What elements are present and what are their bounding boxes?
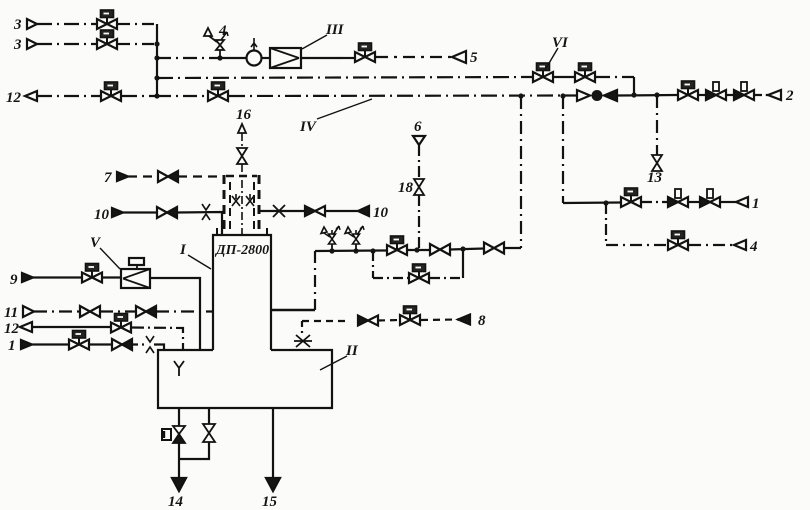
svg-text:2: 2 <box>785 88 794 104</box>
wire <box>642 201 668 203</box>
arrow inlet 10 <box>112 208 123 217</box>
valve plain B <box>484 243 504 254</box>
arrow inlet 7 <box>117 172 128 181</box>
bleeder arrow <box>238 124 246 133</box>
wire line 9 <box>33 276 81 278</box>
wire dashdot to valve 5 <box>343 57 355 59</box>
throat top dashed cap <box>226 175 257 177</box>
valve with actuator on line 8 <box>400 306 420 325</box>
junction dots on header <box>154 41 159 46</box>
X fitting <box>294 335 312 347</box>
valve on line 11 <box>136 306 156 317</box>
leader IV <box>317 99 372 119</box>
wire line 1 <box>32 343 68 345</box>
svg-text:8: 8 <box>478 313 486 329</box>
valve on line 12 top <box>101 82 121 101</box>
junction dot x657 <box>654 92 659 97</box>
wire riser down <box>314 251 316 310</box>
wire <box>450 249 484 250</box>
throat center line <box>241 133 243 235</box>
wire line 12 to header <box>122 95 157 97</box>
arrow outlet 1 <box>736 197 748 207</box>
valve with actuator on bypass <box>409 264 429 283</box>
arrow inlet 3 lower <box>27 39 37 49</box>
svg-text:10: 10 <box>94 207 110 223</box>
blower stem <box>251 38 257 50</box>
wire ejector right <box>301 57 343 59</box>
junction dot <box>217 55 222 60</box>
wire line 3 upper right <box>118 23 157 25</box>
svg-text:12: 12 <box>6 90 22 106</box>
wire to arrow 2 <box>754 94 768 96</box>
wire bypass bottom right <box>430 277 463 279</box>
wire drop 14 <box>178 408 180 426</box>
arrow outlet 8 <box>458 315 470 325</box>
wire drain 2 to line 14 <box>179 442 209 459</box>
valve 18 <box>414 179 424 195</box>
charging device symbols <box>232 194 254 206</box>
wire line 1 right <box>563 201 620 204</box>
valve pair on line 8 <box>358 316 378 326</box>
wire line 4 <box>606 244 667 246</box>
valve on line 5 <box>355 43 375 62</box>
gate valve 1 <box>668 189 688 207</box>
junction dot x606 <box>603 200 608 205</box>
wire header vertical <box>156 24 158 97</box>
drain valve 2 <box>203 424 215 442</box>
wire line 6 lower <box>418 195 420 250</box>
svg-text:1: 1 <box>752 196 760 212</box>
arrow outlet 10 <box>358 206 369 216</box>
wire line 3 lower <box>37 43 96 45</box>
wire drop 15 <box>272 408 274 478</box>
arrow outlet 5 <box>452 51 466 63</box>
wire drop second drain <box>208 408 210 424</box>
wire line VI <box>157 77 532 78</box>
wire vertical x606 <box>605 203 607 245</box>
svg-text:4: 4 <box>218 23 227 39</box>
wire line 3 upper <box>37 23 96 25</box>
drain valve with weight <box>162 426 185 443</box>
wire vertical x657 to valve 13 <box>656 95 658 155</box>
svg-text:11: 11 <box>4 305 18 321</box>
wire <box>726 94 734 96</box>
svg-text:6: 6 <box>414 119 422 135</box>
leader III <box>302 35 327 49</box>
wire line 5 <box>376 56 452 58</box>
junction dot x463 <box>460 246 465 251</box>
svg-text:I: I <box>179 242 187 258</box>
relief valve assembly A <box>321 226 340 251</box>
wire <box>325 210 358 212</box>
ejector III box <box>270 48 301 68</box>
svg-text:18: 18 <box>398 180 414 196</box>
arrow inlet 3 upper <box>27 19 37 29</box>
wire check valve to valves <box>617 94 677 97</box>
valve with actuator on line 12 <box>111 314 131 333</box>
wire main line <box>157 95 207 97</box>
valve VI left <box>533 63 553 82</box>
furnace collar ticks <box>217 228 267 235</box>
wire to blower <box>212 57 247 59</box>
wire bypass up right <box>462 249 464 278</box>
wire vertical x563 <box>562 96 564 203</box>
wire to arrow 4 <box>689 244 734 246</box>
valve pair <box>305 206 325 216</box>
flow chevrons <box>146 336 154 353</box>
arrow outlet 2 <box>768 90 781 100</box>
wire blower to ejector <box>261 57 270 59</box>
wire vertical x521 <box>520 96 522 248</box>
wire <box>132 328 183 351</box>
wire line 10 <box>123 211 158 213</box>
valve on line 3 lower <box>97 30 117 49</box>
valve on line 1 <box>112 339 132 350</box>
wire line 7 right <box>178 175 224 177</box>
arrow outlet 15 <box>266 478 280 491</box>
valve on line 7 <box>158 171 178 182</box>
wire <box>408 249 430 251</box>
leader II <box>320 356 347 370</box>
svg-text:16: 16 <box>236 107 252 123</box>
arrow inlet 6 <box>413 136 425 145</box>
valve VI right <box>575 63 595 82</box>
svg-text:12: 12 <box>4 321 20 337</box>
arrow inlet 11 <box>23 306 34 317</box>
valve plain A <box>430 244 450 255</box>
wire line 12 top <box>37 95 100 97</box>
valve with actuator on line 4 <box>668 231 688 250</box>
check valve <box>577 90 617 101</box>
arrow outlet 4 <box>734 240 746 250</box>
arrow outlet 14 <box>172 478 186 491</box>
wire from throat <box>259 210 305 212</box>
arrow inlet 9 <box>22 273 33 282</box>
wire <box>699 94 706 96</box>
safety vent assembly 4 <box>204 28 228 58</box>
Y symbol inside <box>174 361 184 376</box>
wire line 11 to furnace <box>156 310 213 312</box>
valve 13 <box>652 155 662 171</box>
wire <box>132 343 144 345</box>
wire line 8 <box>302 320 350 322</box>
wire VI to corner <box>596 76 630 78</box>
wire line 7 left <box>128 175 158 177</box>
wire bypass down left <box>372 251 374 278</box>
leader I <box>188 255 211 269</box>
valve with actuator on manifold <box>387 236 407 255</box>
wire line 3 lower right <box>118 43 157 45</box>
wire <box>90 343 112 345</box>
svg-text:10: 10 <box>373 205 389 221</box>
svg-text:IV: IV <box>299 119 318 135</box>
svg-text:3: 3 <box>13 37 22 53</box>
leader V <box>100 248 120 269</box>
valve with actuator on right line 1 <box>621 188 641 207</box>
furnace body <box>213 235 271 350</box>
wire line 12 <box>32 326 110 328</box>
svg-text:ДП-2800: ДП-2800 <box>214 243 269 258</box>
junction dot x373 <box>370 248 375 253</box>
valve with actuator on line 9 <box>82 264 102 283</box>
svg-text:III: III <box>325 22 345 38</box>
blower circle <box>247 51 262 66</box>
svg-text:1: 1 <box>8 338 16 354</box>
svg-text:VI: VI <box>552 35 569 51</box>
wire drop from line 8 <box>301 321 303 333</box>
wire <box>378 319 399 322</box>
valve on main line left <box>208 82 228 101</box>
svg-text:13: 13 <box>647 170 663 186</box>
wire line 11 <box>34 310 80 312</box>
wire to arrow 1 <box>720 201 736 203</box>
svg-text:4: 4 <box>749 239 758 255</box>
reducer V box <box>121 258 150 288</box>
svg-text:9: 9 <box>10 272 18 288</box>
junction dot x356 <box>353 248 358 253</box>
junction dot x521 <box>518 93 523 98</box>
valve with actuator on line 2 <box>678 81 698 100</box>
gate valve 2 <box>700 189 720 207</box>
arrow inlet 1 <box>21 340 32 349</box>
wire between VI valves <box>554 76 574 78</box>
wire <box>421 318 458 321</box>
valve plain on line 11 <box>80 306 100 317</box>
arrow outlet 12 top <box>25 91 37 101</box>
box II outline <box>158 350 332 408</box>
svg-text:15: 15 <box>262 494 278 510</box>
valve on line 10 left <box>157 207 177 218</box>
bleeder valve 16 <box>237 148 247 164</box>
throat inner dashed walls <box>230 182 254 235</box>
wire to arrow 14 <box>178 443 180 478</box>
arrow outlet 12 <box>20 322 32 332</box>
wire branch y58 <box>157 57 212 59</box>
wire riser to furnace <box>271 309 315 312</box>
valve on line 3 upper <box>97 10 117 29</box>
junction dot x563 <box>560 93 565 98</box>
junction dot x634 <box>631 92 636 97</box>
wire <box>688 201 700 203</box>
wire manifold left <box>315 249 386 252</box>
wire bypass bottom left <box>373 277 408 279</box>
junction dot x332 <box>329 248 334 253</box>
svg-text:3: 3 <box>13 17 22 33</box>
wire corner to x521 <box>504 247 521 249</box>
wire line 9 right <box>150 278 200 350</box>
wire <box>103 276 121 278</box>
relief valve assembly B <box>345 226 364 251</box>
throat outer dashed walls <box>224 175 259 235</box>
flow chevrons <box>202 204 210 220</box>
svg-text:5: 5 <box>470 50 478 66</box>
valve with actuator on line 1 <box>69 331 89 350</box>
gate valve 1 on line 2 <box>706 82 726 100</box>
blind X symbol <box>273 205 285 217</box>
wire corner to box <box>154 345 164 351</box>
wire <box>177 212 222 235</box>
wire line 6 upper <box>418 145 420 179</box>
svg-text:7: 7 <box>104 170 112 186</box>
svg-text:14: 14 <box>168 494 184 510</box>
wire <box>100 310 136 312</box>
leader VI <box>545 48 558 70</box>
gate valve 2 on line 2 <box>734 82 754 100</box>
